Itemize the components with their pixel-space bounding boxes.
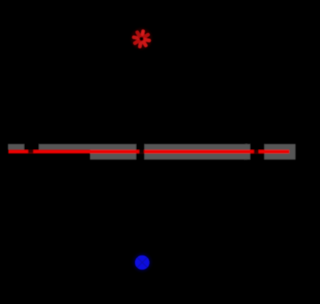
red axis line <box>8 150 289 154</box>
ray C to O (central vertical lower, black) <box>141 160 143 262</box>
star dark center <box>140 37 144 41</box>
lens plane gray band (main thick part) <box>90 144 296 160</box>
central lens mass occluder <box>136 143 144 159</box>
lens plane gray band (upper thin left part) <box>8 144 290 150</box>
ray S to C (central vertical, black) <box>141 41 143 144</box>
ray S to R (upper-right, black) <box>142 41 248 144</box>
right deflection point occluder <box>250 143 264 159</box>
converging rays over observer <box>137 257 147 267</box>
observer O (blue dot) <box>135 255 150 270</box>
ray S to L (upper-left, black, invisible on bg) <box>36 41 142 144</box>
source star halo <box>131 28 152 49</box>
ray L to O (lower-left, black) <box>37 160 143 262</box>
left deflection point occluder (arrowhead over band) <box>24 143 39 153</box>
source star S (red asterisk) <box>134 31 149 46</box>
ray R to O (lower-right, black) <box>142 160 247 262</box>
observer halo <box>133 253 152 272</box>
